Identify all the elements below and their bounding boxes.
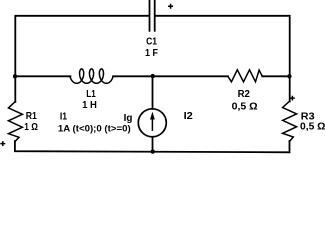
- svg-text:0,5 Ω: 0,5 Ω: [300, 122, 325, 133]
- svg-text:1A (t<0);0 (t>=0): 1A (t<0);0 (t>=0): [58, 124, 131, 134]
- svg-text:R2: R2: [238, 89, 251, 100]
- svg-text:1 H: 1 H: [82, 100, 97, 111]
- svg-text:C1: C1: [146, 37, 157, 48]
- svg-text:I1: I1: [60, 112, 68, 123]
- svg-text:I2: I2: [184, 111, 194, 122]
- svg-text:Ig: Ig: [124, 113, 133, 124]
- svg-text:1 Ω: 1 Ω: [24, 122, 38, 133]
- svg-text:1 F: 1 F: [145, 48, 158, 59]
- svg-text:R1: R1: [26, 111, 38, 122]
- svg-text:0,5 Ω: 0,5 Ω: [232, 102, 258, 113]
- svg-text:L1: L1: [86, 89, 96, 100]
